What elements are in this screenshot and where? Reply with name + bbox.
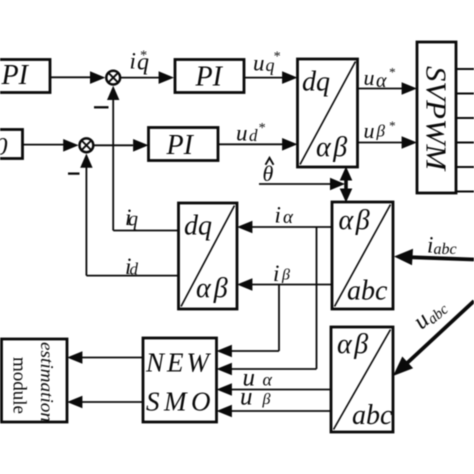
svg-text:dq: dq [184,211,212,242]
svg-text:0: 0 [0,134,8,161]
svg-text:*: * [273,50,280,65]
svg-text:*: * [140,49,147,64]
svg-text:θ: θ [263,161,274,186]
svg-text:PI: PI [166,130,195,161]
svg-text:αβ: αβ [196,273,231,304]
svg-text:β: β [262,391,271,408]
svg-text:αβ: αβ [316,132,350,163]
svg-text:α: α [263,370,273,390]
svg-text:NEW: NEW [145,348,212,378]
svg-text:u: u [364,118,375,143]
svg-text:abc: abc [347,276,388,307]
svg-text:i: i [130,49,136,74]
svg-text:*: * [258,121,265,136]
svg-text:PI: PI [1,60,30,91]
svg-text:α: α [283,207,294,228]
svg-text:i: i [427,233,433,258]
svg-text:module: module [8,357,29,414]
svg-text:u: u [240,384,253,411]
svg-text:d: d [249,126,258,145]
svg-text:*: * [389,118,396,133]
svg-text:d: d [130,260,139,279]
svg-text:i: i [273,261,279,286]
svg-text:α: α [376,70,387,92]
svg-text:SVPWM: SVPWM [420,66,452,172]
svg-text:*: * [389,65,396,80]
svg-text:abc: abc [352,400,393,431]
svg-text:β: β [376,122,386,141]
svg-text:PI: PI [195,62,224,93]
svg-text:estimation: estimation [37,342,57,422]
svg-text:u: u [253,50,265,75]
svg-text:u: u [364,65,375,90]
svg-text:u: u [236,121,248,146]
svg-text:i: i [275,203,281,228]
svg-text:dq: dq [302,67,330,98]
svg-text:SMO: SMO [146,387,215,417]
svg-text:abc: abc [434,241,457,258]
svg-text:q: q [128,208,138,230]
svg-text:αβ: αβ [339,205,373,236]
svg-text:αβ: αβ [337,329,371,360]
svg-text:β: β [281,267,290,284]
